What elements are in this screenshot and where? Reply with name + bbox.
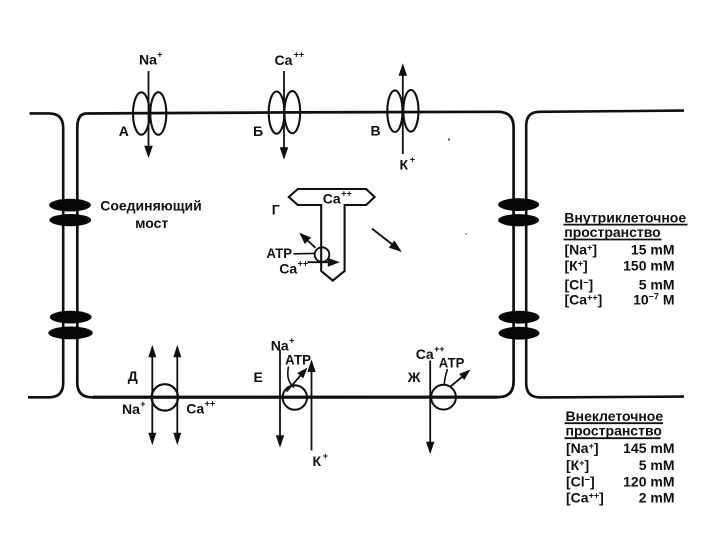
SR pump circle bbox=[315, 247, 330, 262]
speck bbox=[465, 233, 467, 235]
svg-text:Ca: Ca bbox=[279, 261, 297, 277]
svg-text:[Na+]: [Na+] bbox=[566, 440, 599, 456]
svg-text:2 mM: 2 mM bbox=[639, 490, 675, 506]
svg-text:В: В bbox=[371, 123, 381, 139]
membrane right neighbor cell bbox=[526, 111, 684, 398]
svg-text:5 mM: 5 mM bbox=[639, 277, 675, 293]
channel A ellipse left bbox=[133, 92, 150, 134]
svg-text:[Na+]: [Na+] bbox=[565, 242, 598, 258]
gap junction disc left 3 bbox=[50, 311, 92, 324]
svg-text:[Cl−]: [Cl−] bbox=[565, 277, 594, 293]
pump E K line up bbox=[311, 370, 313, 451]
wire ATP to pump bbox=[294, 252, 315, 254]
svg-text:+: + bbox=[323, 451, 328, 461]
svg-text:[К+]: [К+] bbox=[566, 457, 589, 473]
channel A flow line bbox=[148, 71, 150, 148]
SR T-structure bbox=[289, 189, 375, 281]
membrane main cell bottom thick segment bbox=[93, 396, 497, 399]
svg-text:Ж: Ж bbox=[407, 369, 421, 385]
svg-text:+: + bbox=[289, 335, 294, 345]
channel B flow line bbox=[283, 71, 285, 150]
channel B ellipse left bbox=[269, 92, 285, 134]
svg-text:++: ++ bbox=[434, 344, 445, 354]
SR pump arrow right into stem bbox=[308, 261, 330, 263]
svg-text:[Cl−]: [Cl−] bbox=[566, 473, 595, 489]
svg-text:К: К bbox=[313, 453, 322, 469]
svg-text:АТР: АТР bbox=[439, 354, 465, 370]
svg-text:АТР: АТР bbox=[267, 245, 293, 261]
svg-text:АТР: АТР bbox=[285, 352, 311, 368]
pump E diagonal arrow bbox=[287, 375, 302, 392]
svg-text:Ca: Ca bbox=[275, 52, 293, 68]
svg-text:[К+]: [К+] bbox=[565, 258, 588, 274]
svg-text:мост: мост bbox=[135, 215, 168, 231]
svg-text:пространство: пространство bbox=[566, 422, 662, 438]
svg-text:Na: Na bbox=[122, 401, 140, 417]
diagonal release arrow bbox=[372, 229, 393, 245]
svg-text:++: ++ bbox=[205, 398, 216, 408]
svg-text:145 mM: 145 mM bbox=[623, 440, 674, 456]
svg-text:Г: Г bbox=[272, 201, 280, 217]
svg-text:+: + bbox=[410, 155, 415, 165]
gap junction disc left 2 bbox=[49, 214, 91, 226]
svg-text:15 mM: 15 mM bbox=[631, 242, 675, 258]
pump Zh circle bbox=[431, 385, 456, 410]
pump E ATP hook bbox=[288, 367, 294, 388]
svg-text:К: К bbox=[400, 157, 409, 173]
membrane left neighbor cell bbox=[28, 113, 63, 397]
gap junction disc left 1 bbox=[49, 199, 91, 212]
svg-text:5 mM: 5 mM bbox=[639, 457, 675, 473]
svg-text:Е: Е bbox=[254, 369, 263, 385]
svg-text:150 mM: 150 mM bbox=[623, 258, 674, 274]
svg-text:120 mM: 120 mM bbox=[623, 473, 674, 489]
gap junction disc right 4 bbox=[499, 327, 540, 340]
channel V ellipse left bbox=[387, 90, 402, 132]
exchanger D arrow right double-headed bbox=[176, 352, 178, 438]
svg-text:А: А bbox=[119, 123, 129, 139]
exchanger D circle bbox=[152, 384, 178, 410]
svg-text:Соединяющий: Соединяющий bbox=[100, 198, 202, 214]
svg-text:++: ++ bbox=[341, 189, 352, 199]
gap junction disc right 2 bbox=[498, 214, 539, 226]
svg-text:Б: Б bbox=[253, 123, 263, 139]
svg-text:++: ++ bbox=[294, 50, 305, 60]
channel B arrowhead down bbox=[280, 147, 289, 160]
gap junction disc right 3 bbox=[499, 311, 540, 324]
pump E Na line down bbox=[279, 350, 281, 438]
svg-text:++: ++ bbox=[298, 259, 309, 269]
channel V ellipse right bbox=[403, 90, 418, 132]
svg-text:Ca: Ca bbox=[186, 400, 204, 416]
channel B ellipse right bbox=[284, 91, 300, 133]
channel V flow line bbox=[402, 75, 404, 154]
gap junction disc left 4 bbox=[48, 327, 93, 340]
svg-text:Д: Д bbox=[128, 368, 138, 384]
channel A ellipse right bbox=[150, 92, 166, 135]
gap junction disc right 1 bbox=[498, 198, 539, 211]
speck bbox=[448, 138, 450, 140]
svg-text:+: + bbox=[157, 50, 162, 60]
pump E circle bbox=[283, 385, 307, 409]
SR pump arrow up-left bbox=[306, 239, 316, 248]
pump Zh ATP hook bbox=[444, 369, 447, 386]
pump Zh Ca line down bbox=[429, 361, 431, 444]
channel A arrowhead down bbox=[144, 146, 153, 159]
svg-text:Ca: Ca bbox=[323, 191, 341, 207]
membrane main cell bbox=[77, 112, 513, 398]
svg-text:Ca: Ca bbox=[416, 346, 434, 362]
svg-text:пространство: пространство bbox=[564, 224, 660, 240]
pump Zh diagonal arrow bbox=[451, 377, 463, 387]
svg-text:+: + bbox=[140, 399, 145, 409]
channel V arrowhead up bbox=[399, 63, 408, 75]
exchanger D arrow left double-headed bbox=[151, 352, 153, 438]
svg-text:Na: Na bbox=[139, 51, 157, 67]
